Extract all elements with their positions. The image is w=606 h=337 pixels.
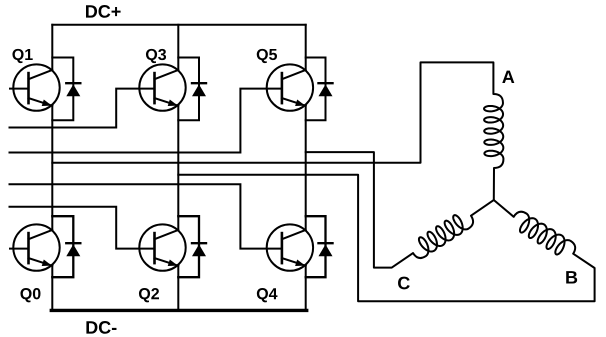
DC+ rail bbox=[52, 24, 305, 26]
label Q2 bbox=[139, 288, 159, 302]
wire drive line to Q2 base bbox=[10, 207, 155, 249]
wire phase C and winding C bbox=[306, 152, 494, 268]
label Q3 bbox=[146, 49, 166, 63]
wire leg 1 bottom bbox=[51, 266, 53, 311]
wire diode loop Q2 bbox=[178, 216, 199, 277]
wire diode loop Q3 bbox=[178, 58, 199, 121]
wire diode loop Q0 bbox=[52, 216, 73, 277]
wire leg 1 middle bbox=[51, 106, 53, 230]
wire Q0 base bbox=[10, 248, 29, 250]
DC- rail bbox=[51, 309, 306, 312]
wire leg 3 collector top bbox=[305, 25, 307, 70]
wire leg 3 bottom bbox=[305, 266, 307, 311]
label A bbox=[502, 71, 514, 83]
wire Q1 base bbox=[10, 88, 29, 90]
wire diode loop Q1 bbox=[52, 58, 73, 121]
transistor Q4 bbox=[267, 224, 313, 270]
transistor Q3 bbox=[139, 64, 185, 110]
label Q1 bbox=[12, 49, 32, 63]
wire phase B and winding B bbox=[178, 175, 594, 301]
label C bbox=[398, 277, 410, 290]
transistor Q5 bbox=[267, 64, 313, 110]
wire leg 2 bottom bbox=[177, 266, 179, 311]
wire drive line to Q5 base bbox=[10, 89, 282, 153]
label DC- bbox=[86, 321, 116, 334]
wire drive line to Q4 base bbox=[10, 184, 282, 248]
freewheel diode across Q0 bbox=[66, 243, 80, 256]
freewheel diode across Q3 bbox=[192, 83, 206, 96]
freewheel diode across Q4 bbox=[319, 243, 333, 256]
transistor Q0 bbox=[13, 224, 59, 270]
label Q0 bbox=[20, 288, 40, 302]
label B bbox=[566, 271, 577, 283]
wire leg 2 collector top bbox=[177, 25, 179, 70]
wire diode loop Q4 bbox=[306, 216, 326, 277]
freewheel diode across Q1 bbox=[66, 83, 80, 96]
wire leg 1 collector top bbox=[51, 25, 53, 70]
label Q5 bbox=[257, 49, 277, 63]
freewheel diode across Q2 bbox=[192, 243, 206, 256]
label Q4 bbox=[257, 288, 278, 302]
label DC+ bbox=[86, 5, 121, 18]
wire leg 2 middle bbox=[177, 106, 179, 230]
wire diode loop Q5 bbox=[306, 58, 326, 121]
wire leg 3 middle bbox=[305, 106, 307, 230]
transistor Q2 bbox=[139, 224, 185, 270]
wire phase A and winding A bbox=[52, 62, 503, 200]
transistor Q1 bbox=[13, 64, 59, 110]
freewheel diode across Q5 bbox=[319, 83, 333, 96]
wire drive line to Q3 base bbox=[10, 89, 155, 128]
